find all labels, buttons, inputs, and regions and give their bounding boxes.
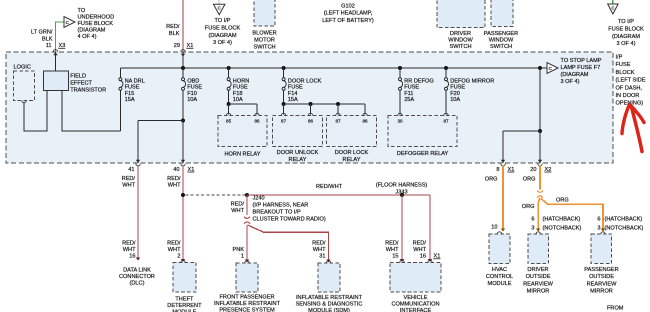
svg-text:TO I/P: TO I/P — [214, 18, 230, 24]
terminal exit 40/X1 on fuse block bottom edge — [181, 160, 185, 163]
svg-text:15A: 15A — [125, 97, 135, 103]
svg-text:DETERRENT: DETERRENT — [167, 303, 202, 309]
svg-text:16: 16 — [129, 254, 135, 260]
svg-text:FRONT PASSENGER: FRONT PASSENGER — [219, 295, 274, 301]
svg-text:DEFOGGER RELAY: DEFOGGER RELAY — [397, 151, 449, 157]
svg-text:25A: 25A — [404, 97, 414, 103]
junction on bus at defog mirror fuse — [444, 66, 448, 70]
svg-text:PNK: PNK — [232, 247, 244, 253]
front passenger inflatable restraint presence system (dashed box) — [236, 263, 258, 292]
svg-text:6: 6 — [597, 217, 600, 223]
field effect transistor box — [44, 71, 69, 91]
wire RED/WHT to VCI pin 16 — [429, 195, 431, 260]
svg-text:29: 29 — [174, 43, 180, 49]
svg-text:RED/: RED/ — [166, 24, 180, 30]
driver window switch (partial box) — [437, 0, 485, 28]
svg-text:EFFECT: EFFECT — [70, 81, 92, 87]
wire ORG to HVAC control module — [502, 166, 504, 230]
svg-text:IN DOOR: IN DOOR — [616, 93, 640, 99]
svg-text:LT GRN/: LT GRN/ — [31, 30, 53, 36]
svg-text:RED/: RED/ — [413, 241, 427, 247]
svg-text:MODULE (SDM): MODULE (SDM) — [308, 308, 350, 312]
svg-text:RELAY: RELAY — [289, 157, 307, 163]
svg-text:CONNECTOR: CONNECTOR — [119, 274, 155, 280]
fuse F14 DOOR LOCK 15A — [283, 68, 285, 78]
svg-text:8: 8 — [496, 167, 499, 173]
svg-text:INTERFACE: INTERFACE — [400, 308, 432, 312]
svg-text:WHT: WHT — [123, 247, 136, 253]
svg-text:RED/: RED/ — [385, 241, 399, 247]
svg-text:F11: F11 — [404, 91, 413, 97]
svg-text:BLOWER: BLOWER — [252, 31, 276, 37]
svg-text:PASSENGER: PASSENGER — [484, 31, 518, 37]
in-line harness break on J240 drop — [244, 217, 250, 219]
svg-text:(LEFT HEADLAMP,: (LEFT HEADLAMP, — [324, 11, 373, 17]
svg-text:3: 3 — [597, 226, 600, 232]
wire ORG feed inside block — [539, 68, 541, 131]
svg-text:F18: F18 — [233, 91, 243, 97]
svg-text:FUSE: FUSE — [404, 85, 419, 91]
svg-text:10A: 10A — [450, 97, 460, 103]
svg-text:BLK: BLK — [169, 31, 180, 37]
HVAC control module (dashed box) — [489, 234, 510, 264]
svg-text:RED/: RED/ — [312, 241, 326, 247]
svg-text:3 OF 4): 3 OF 4) — [617, 41, 636, 47]
wire PNK to front passenger presence system — [246, 226, 248, 261]
svg-text:FUSE: FUSE — [125, 85, 140, 91]
wire F20 output to defogger relay — [445, 90, 447, 114]
svg-text:MIRROR: MIRROR — [590, 289, 613, 295]
svg-text:C: C — [66, 20, 69, 25]
fuse F18 HORN 10A — [228, 68, 230, 78]
svg-text:RELAY: RELAY — [343, 157, 361, 163]
svg-text:(DIAGRAM: (DIAGRAM — [561, 72, 589, 78]
bus wire from NA DRL fuse to stop lamp connector — [120, 67, 547, 69]
svg-text:(DIAGRAM: (DIAGRAM — [209, 33, 237, 39]
svg-text:NA DRL: NA DRL — [125, 78, 145, 84]
svg-text:ORG: ORG — [522, 204, 535, 210]
svg-text:DATA LINK: DATA LINK — [123, 268, 151, 274]
wire RED/WHT J240 to J343 — [247, 194, 430, 196]
wire LT GRN/BLK to underhood fuse block — [56, 22, 65, 52]
svg-text:F14: F14 — [288, 91, 298, 97]
svg-text:J240: J240 — [253, 196, 265, 202]
svg-text:2: 2 — [177, 254, 180, 260]
svg-text:(DIAGRAM: (DIAGRAM — [612, 34, 640, 40]
wire stub GRN top right — [612, 0, 614, 4]
svg-text:30: 30 — [397, 119, 403, 124]
svg-text:DRIVER: DRIVER — [450, 31, 471, 37]
svg-text:(DLC): (DLC) — [130, 281, 145, 287]
wire RED/WHT to theft deterrent module — [182, 166, 184, 261]
door unlock relay (dashed box) — [273, 116, 323, 147]
wire ORG from terminal 20/X2 — [539, 166, 541, 190]
svg-text:OUTSIDE: OUTSIDE — [526, 274, 551, 280]
svg-text:G102: G102 — [341, 4, 355, 10]
svg-text:C: C — [611, 5, 614, 10]
svg-text:TO: TO — [78, 8, 86, 14]
wire ORG branch to passenger mirror — [541, 198, 603, 229]
svg-text:3: 3 — [531, 226, 534, 232]
I/P fuse block (dashed outline) — [6, 52, 613, 163]
svg-text:HORN RELAY: HORN RELAY — [225, 151, 261, 157]
svg-text:87: 87 — [281, 119, 287, 124]
svg-text:FUSE: FUSE — [288, 85, 303, 91]
svg-text:ORG: ORG — [523, 177, 536, 183]
svg-text:HVAC: HVAC — [492, 267, 507, 273]
svg-text:RED/: RED/ — [122, 241, 136, 247]
svg-text:FUSE BLOCK: FUSE BLOCK — [78, 21, 114, 27]
svg-text:87: 87 — [335, 119, 341, 124]
svg-text:11: 11 — [46, 43, 52, 49]
hand-drawn red arrow — [622, 105, 630, 134]
svg-text:RED/: RED/ — [231, 202, 245, 208]
svg-text:3 OF 4): 3 OF 4) — [561, 79, 580, 85]
svg-text:X3: X3 — [59, 43, 66, 49]
svg-text:86: 86 — [362, 119, 368, 124]
svg-text:WHT: WHT — [231, 208, 244, 214]
svg-text:OBD: OBD — [187, 78, 199, 84]
svg-text:PRESENCE SYSTEM: PRESENCE SYSTEM — [219, 308, 275, 312]
dashed link wire 40 to splice J240 — [186, 194, 246, 196]
driver outside rearview mirror (dashed box) — [528, 234, 549, 264]
logic block (dashed) — [14, 71, 35, 101]
svg-text:MIRROR: MIRROR — [527, 289, 550, 295]
svg-text:31: 31 — [319, 254, 325, 260]
svg-text:RED/: RED/ — [167, 176, 181, 182]
terminal X1-29 entry arrow — [181, 50, 185, 52]
terminal exit 41 on fuse block bottom edge — [136, 160, 140, 163]
svg-text:CONTROL: CONTROL — [486, 274, 513, 280]
svg-text:COMMUNICATION: COMMUNICATION — [391, 302, 439, 308]
connector to I/P fuse block (triangle) — [213, 4, 225, 15]
junction on bus at rr defog fuse — [398, 66, 402, 70]
svg-text:SWITCH: SWITCH — [449, 44, 471, 50]
svg-text:(FLOOR HARNESS): (FLOOR HARNESS) — [376, 183, 428, 189]
svg-text:(DIAGRAM: (DIAGRAM — [78, 28, 106, 34]
svg-text:WHT: WHT — [413, 247, 426, 253]
fuse F10 OBD 10A — [182, 68, 184, 78]
svg-text:SWITCH: SWITCH — [253, 45, 275, 51]
svg-text:RED/: RED/ — [122, 176, 136, 182]
connector to underhood fuse block (triangle) — [64, 17, 75, 28]
svg-text:(HATCHBACK): (HATCHBACK) — [605, 217, 643, 223]
wire F11 output to defogger relay — [399, 90, 401, 114]
horn relay (dashed box) — [218, 116, 267, 147]
svg-text:FUSE: FUSE — [616, 62, 631, 68]
svg-text:DRIVER: DRIVER — [527, 267, 548, 273]
svg-text:VEHICLE: VEHICLE — [404, 295, 428, 301]
svg-text:F10: F10 — [187, 91, 197, 97]
svg-text:REARVIEW: REARVIEW — [523, 281, 553, 287]
svg-text:UNDERHOOD: UNDERHOOD — [78, 15, 115, 21]
svg-text:WHT: WHT — [313, 247, 326, 253]
svg-text:(NOTCHBACK): (NOTCHBACK) — [605, 226, 644, 232]
svg-text:WHT: WHT — [386, 247, 399, 253]
svg-text:THEFT: THEFT — [175, 297, 194, 303]
wire RED/WHT to data link connector — [137, 166, 139, 259]
svg-text:I/P: I/P — [616, 55, 623, 61]
svg-text:WINDOW: WINDOW — [489, 37, 514, 43]
door lock relay (dashed box) — [327, 116, 377, 147]
svg-text:10A: 10A — [187, 97, 197, 103]
svg-text:J343: J343 — [395, 189, 407, 195]
svg-text:FUSE BLOCK: FUSE BLOCK — [205, 25, 241, 31]
svg-text:LAMP FUSE F7: LAMP FUSE F7 — [561, 65, 601, 71]
svg-text:BLK: BLK — [42, 37, 53, 43]
connector to I/P fuse block right (triangle) — [608, 4, 619, 14]
svg-text:SWITCH: SWITCH — [490, 44, 512, 50]
svg-text:WHT: WHT — [168, 247, 181, 253]
svg-text:RR DEFOG: RR DEFOG — [404, 78, 434, 84]
svg-text:DOOR LOCK: DOOR LOCK — [335, 150, 369, 156]
svg-text:X1: X1 — [434, 254, 441, 260]
svg-text:OUTSIDE: OUTSIDE — [589, 274, 614, 280]
terminal exit 20/X2 on fuse block bottom edge — [538, 160, 542, 163]
passenger outside rearview mirror (dashed box) — [591, 234, 612, 264]
svg-text:10A: 10A — [233, 97, 243, 103]
svg-text:LEFT OF BATTERY): LEFT OF BATTERY) — [322, 18, 374, 24]
wire F18 output to horn relay — [228, 90, 230, 104]
svg-text:4 OF 4): 4 OF 4) — [78, 34, 97, 40]
svg-text:X1: X1 — [188, 167, 195, 173]
svg-text:(NOTCHBACK): (NOTCHBACK) — [543, 226, 582, 232]
junction on bus at ORG branch — [538, 66, 542, 70]
wire RED/WHT J240 drop — [246, 195, 248, 215]
svg-text:ORG: ORG — [556, 197, 569, 203]
junction J at wire 40 — [181, 193, 185, 197]
wire logic to FET — [22, 101, 26, 103]
svg-text:X1: X1 — [187, 43, 194, 49]
svg-text:(LEFT SIDE: (LEFT SIDE — [616, 78, 646, 84]
svg-text:WHT: WHT — [122, 183, 135, 189]
svg-text:WHT: WHT — [168, 183, 181, 189]
vehicle communication interface (dashed box) — [390, 263, 441, 293]
svg-text:15: 15 — [392, 254, 398, 260]
svg-text:X2: X2 — [545, 167, 552, 173]
svg-text:15A: 15A — [288, 97, 298, 103]
wire ORG to driver mirror — [538, 198, 540, 229]
svg-text:RED/WHT: RED/WHT — [316, 184, 343, 190]
svg-text:SENSING & DIAGNOSTIC: SENSING & DIAGNOSTIC — [296, 302, 363, 308]
svg-text:X1: X1 — [508, 167, 515, 173]
defogger relay (dashed box) — [388, 116, 457, 147]
svg-text:87: 87 — [443, 119, 449, 124]
svg-text:TO I/P: TO I/P — [618, 19, 634, 25]
wire RED/BLK from top — [182, 0, 184, 52]
svg-text:OF DASH,: OF DASH, — [616, 85, 643, 91]
fuse F15 NA DRL 15A — [119, 68, 121, 78]
passenger window switch (partial box) — [491, 0, 513, 27]
inflatable restraint sensing and diagnostic module (dashed box) — [318, 263, 340, 292]
svg-text:86: 86 — [254, 119, 260, 124]
wire NA DRL fuse to FET — [62, 91, 120, 132]
svg-text:FIELD: FIELD — [70, 74, 86, 80]
terminal exit 8/X1 on fuse block bottom edge — [501, 160, 505, 163]
svg-text:INFLATABLE RESTRAINT: INFLATABLE RESTRAINT — [214, 301, 281, 307]
connector to stop lamp fuse (triangle) — [547, 63, 558, 74]
svg-text:INFLATABLE RESTRAINT: INFLATABLE RESTRAINT — [296, 295, 363, 301]
svg-text:FUSE: FUSE — [187, 85, 202, 91]
fuse F20 DEFOG MIRROR 10A — [445, 68, 447, 78]
wire stub TAN to I/P fuse block — [218, 0, 220, 4]
svg-text:REARVIEW: REARVIEW — [587, 281, 617, 287]
svg-text:FUSE: FUSE — [450, 85, 465, 91]
svg-text:F15: F15 — [125, 91, 135, 97]
blower motor switch (partial box) — [254, 0, 275, 26]
svg-text:DOOR LOCK: DOOR LOCK — [288, 78, 322, 84]
svg-text:BREAKOUT TO I/P: BREAKOUT TO I/P — [253, 210, 301, 216]
svg-text:10: 10 — [491, 224, 497, 230]
svg-text:3 OF 4): 3 OF 4) — [213, 40, 232, 46]
svg-text:ORG: ORG — [485, 177, 498, 183]
svg-text:FROM: FROM — [607, 306, 624, 312]
theft deterrent module (dashed box) — [173, 263, 196, 293]
wire F15 output — [119, 90, 121, 131]
svg-text:(I/P HARNESS, NEAR: (I/P HARNESS, NEAR — [253, 203, 309, 209]
svg-text:16: 16 — [420, 254, 426, 260]
svg-text:FUSE: FUSE — [233, 85, 248, 91]
svg-text:C: C — [218, 6, 221, 11]
svg-text:RED/: RED/ — [167, 241, 181, 247]
svg-text:PASSENGER: PASSENGER — [584, 267, 618, 273]
svg-text:MOTOR: MOTOR — [254, 38, 275, 44]
svg-text:DEFOG MIRROR: DEFOG MIRROR — [450, 78, 494, 84]
svg-text:(HATCHBACK): (HATCHBACK) — [543, 217, 581, 223]
svg-text:1: 1 — [241, 254, 244, 260]
wire RED/WHT branch to SDM — [248, 225, 329, 261]
svg-text:FUSE BLOCK: FUSE BLOCK — [608, 26, 644, 32]
svg-text:85: 85 — [226, 119, 232, 124]
wire RED/WHT to VCI pin 15 — [401, 195, 403, 260]
svg-text:F20: F20 — [450, 91, 460, 97]
junction on bus at RED/BLK feed — [181, 66, 185, 70]
svg-text:86: 86 — [308, 119, 314, 124]
wire FET output to X3 terminal — [55, 52, 57, 71]
fuse F11 RR DEFOG 25A — [399, 68, 401, 78]
junction on bus at door lock fuse — [282, 66, 286, 70]
wire F14 output to door relays — [283, 90, 285, 104]
svg-text:CLUSTER TOWARD RADIO): CLUSTER TOWARD RADIO) — [253, 217, 326, 223]
in-line harness break on ORG wire — [537, 191, 543, 193]
svg-text:HORN: HORN — [233, 78, 249, 84]
wire F10 output to exits 41/40 — [182, 90, 184, 120]
svg-text:TRANSISTOR: TRANSISTOR — [70, 87, 106, 93]
svg-text:WINDOW: WINDOW — [448, 37, 473, 43]
svg-text:20: 20 — [530, 167, 536, 173]
svg-text:MODULE: MODULE — [488, 281, 512, 287]
svg-text:C: C — [549, 66, 552, 71]
svg-text:DOOR UNLOCK: DOOR UNLOCK — [277, 150, 319, 156]
splice J240 — [245, 193, 249, 197]
svg-text:LOGIC: LOGIC — [14, 65, 31, 71]
svg-text:TO STOP LAMP: TO STOP LAMP — [561, 58, 602, 64]
junction on bus at horn fuse — [227, 66, 231, 70]
svg-text:BLOCK: BLOCK — [616, 70, 635, 76]
svg-text:6: 6 — [531, 217, 534, 223]
splice J343 (FLOOR HARNESS) — [400, 193, 404, 197]
svg-text:41: 41 — [128, 167, 134, 173]
svg-text:40: 40 — [173, 167, 179, 173]
